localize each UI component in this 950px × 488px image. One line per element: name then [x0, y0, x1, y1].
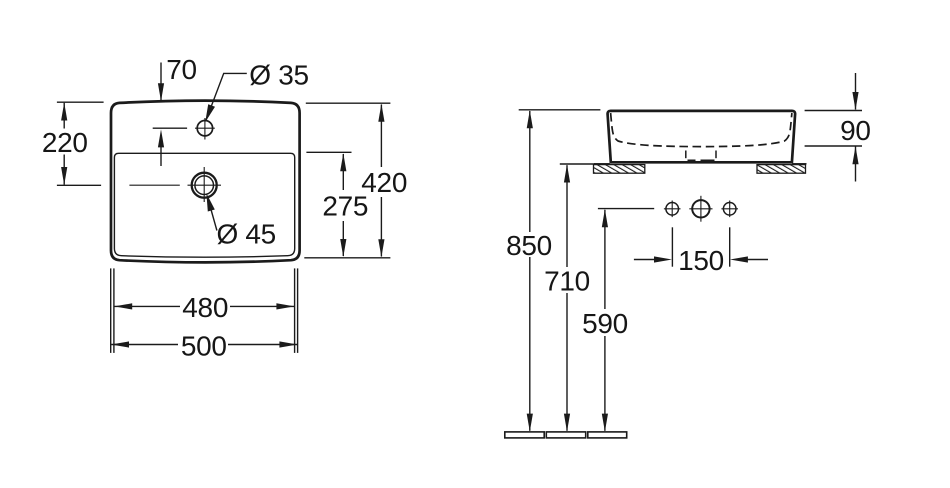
dim 220 line lower	[63, 155, 65, 185]
dim 70 tick at tap level	[153, 127, 187, 129]
hatch block left	[594, 165, 645, 174]
dim 90 top extension	[805, 110, 862, 112]
dim 420 arrow down	[378, 239, 384, 257]
dim 480 line left	[115, 305, 181, 307]
svg-text:480: 480	[182, 292, 228, 323]
tap hole centerlines	[195, 127, 215, 129]
svg-text:590: 590	[582, 308, 628, 339]
dim 90 arrow down	[852, 92, 858, 110]
basin profile	[608, 111, 796, 162]
dim 275 top extension	[306, 151, 351, 153]
floor bar 1	[505, 432, 544, 438]
basin outer outline	[111, 101, 300, 263]
dim 590 line lower	[604, 336, 606, 431]
dim 275 arrow up	[340, 153, 346, 171]
drain hole outer circle	[192, 173, 217, 198]
tap hole large middle	[692, 200, 709, 217]
dim 275 arrow down	[340, 239, 346, 257]
dim 480 line right	[230, 305, 294, 307]
dim 590 arrow up	[602, 209, 608, 227]
dim 420 arrow up	[378, 104, 384, 122]
dim 590 line upper	[604, 210, 606, 309]
dim 710 arrow down	[564, 414, 570, 432]
countertop line right	[792, 163, 806, 165]
leader line D35	[206, 73, 247, 119]
svg-text:710: 710	[544, 265, 590, 296]
dim 275 line lower	[342, 221, 344, 256]
dim 500 arrow left	[111, 341, 129, 347]
floor bar 2	[546, 432, 585, 438]
inner bowl dashed line	[611, 113, 792, 147]
dim 150 arrow left	[654, 256, 672, 262]
dim 710 line lower	[566, 293, 568, 431]
dim 70 upper line	[160, 63, 162, 101]
drain centerline horizontal	[188, 184, 222, 186]
dim 850 line lower	[529, 257, 531, 431]
dim 480 arrow right	[276, 303, 294, 309]
dim 220 top tick	[57, 101, 104, 103]
leader line D45	[209, 202, 217, 230]
svg-text:220: 220	[42, 127, 88, 158]
dim 70 lower arrow	[158, 129, 164, 147]
dim 480 arrow left	[114, 303, 132, 309]
dim 275 line upper	[342, 154, 344, 190]
dim 420/275 bottom extension	[304, 257, 390, 259]
dim 150 arrow right	[730, 256, 748, 262]
dim 220 arrow down	[61, 167, 67, 185]
dim 420 line upper	[380, 105, 382, 168]
svg-text:70: 70	[166, 54, 197, 85]
leader arrow D35	[205, 104, 215, 122]
dim 850 arrow down	[527, 414, 533, 432]
tap hole small right	[723, 203, 736, 216]
hatch block right	[757, 165, 806, 174]
dim 590 arrow down	[602, 414, 608, 432]
ext lines below basin right	[294, 268, 296, 353]
dim 850 line upper	[529, 111, 531, 232]
svg-text:Ø 35: Ø 35	[249, 59, 309, 90]
dim 500 arrow right	[279, 341, 297, 347]
dim 220 line upper	[63, 103, 65, 129]
dim 850 arrow up	[527, 110, 533, 128]
svg-text:275: 275	[322, 191, 368, 222]
dim 710 line upper	[566, 165, 568, 267]
countertop line left	[594, 163, 610, 165]
dim 90 bottom extension	[805, 145, 862, 147]
dim 220 bottom tick	[57, 184, 101, 186]
floor bar 3	[588, 432, 627, 438]
svg-text:90: 90	[840, 115, 871, 146]
ext lines below basin left	[110, 268, 112, 353]
dim 90 line upper	[855, 73, 857, 110]
dim 500 line right	[228, 344, 297, 346]
leader arrow D45	[206, 193, 214, 211]
dim 90 line lower	[855, 147, 857, 182]
svg-text:150: 150	[678, 245, 724, 276]
svg-text:500: 500	[181, 331, 227, 362]
svg-text:850: 850	[506, 230, 552, 261]
dim 590 top extension	[598, 208, 654, 210]
dim 150 right extension	[729, 227, 731, 266]
drain centerline vertical	[203, 167, 205, 202]
dim 420 line lower	[380, 197, 382, 257]
dim 150 left extension	[671, 227, 673, 266]
tap hole circle	[197, 121, 212, 136]
dim 850 top extension	[519, 109, 601, 111]
drain bottom dashes	[688, 160, 696, 162]
dim 150 line left	[634, 259, 660, 261]
dim 420 top extension	[306, 102, 391, 104]
dim 220 arrow up	[61, 103, 67, 121]
dim 90 arrow up	[852, 146, 858, 164]
dim 710 arrow up	[564, 165, 570, 183]
dim 70 upper arrow	[158, 83, 164, 101]
dim 70 lower stem	[160, 140, 162, 166]
tap hole small left	[666, 203, 679, 216]
drain hole inner circle	[195, 176, 214, 195]
drain hidden dashes	[685, 151, 687, 159]
dim 500 line left	[111, 344, 178, 346]
basin inner rim	[114, 153, 294, 257]
dim 150 line right	[742, 259, 768, 261]
svg-text:Ø 45: Ø 45	[216, 218, 276, 249]
dim 710 top extension	[560, 163, 595, 165]
